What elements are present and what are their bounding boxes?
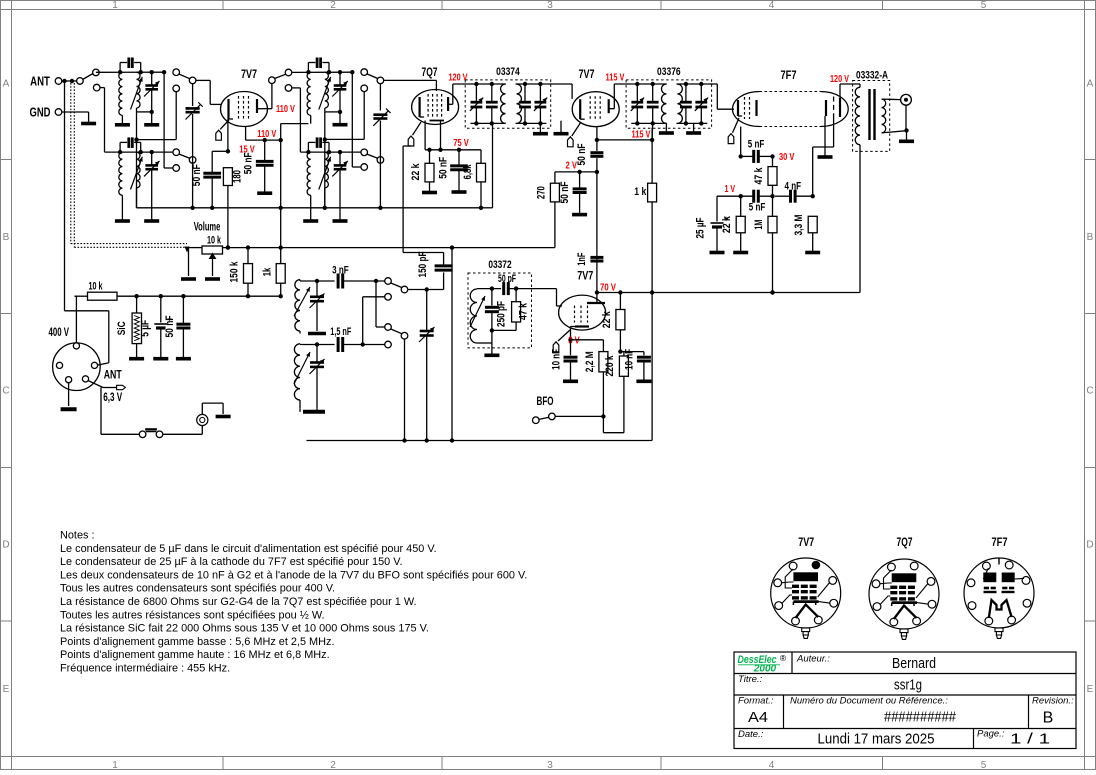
svg-text:Numéro du Document ou Référenc: Numéro du Document ou Référence.: — [790, 696, 948, 707]
svg-text:®: ® — [780, 653, 787, 663]
svg-text:B: B — [1043, 710, 1054, 727]
svg-text:2 V: 2 V — [566, 160, 578, 171]
svg-text:10 nF: 10 nF — [623, 349, 635, 370]
svg-text:ANT: ANT — [104, 370, 122, 382]
svg-text:10 nF: 10 nF — [551, 349, 563, 370]
svg-text:##########: ########## — [884, 709, 957, 726]
svg-text:15 V: 15 V — [239, 145, 255, 156]
svg-text:120 V: 120 V — [830, 74, 849, 85]
svg-text:50 nF: 50 nF — [576, 143, 588, 165]
svg-text:1 V: 1 V — [725, 184, 736, 195]
svg-text:115 V: 115 V — [632, 129, 651, 140]
svg-text:1: 1 — [112, 760, 118, 770]
svg-text:150 pF: 150 pF — [417, 251, 429, 277]
svg-text:7Q7: 7Q7 — [897, 537, 913, 549]
svg-text:4: 4 — [769, 0, 775, 11]
svg-text:3: 3 — [547, 760, 553, 770]
svg-text:7V7: 7V7 — [798, 537, 814, 549]
svg-text:Le condensateur de 25 µF à la: Le condensateur de 25 µF à la cathode du… — [60, 556, 403, 568]
svg-text:150 k: 150 k — [228, 261, 240, 283]
svg-text:70 V: 70 V — [600, 282, 616, 293]
svg-text:C: C — [2, 386, 9, 397]
svg-text:3: 3 — [547, 0, 553, 11]
svg-text:Tous les autres condensateurs: Tous les autres condensateurs sont spéci… — [60, 583, 335, 595]
svg-text:1M: 1M — [753, 220, 765, 230]
svg-text:B: B — [1087, 232, 1094, 243]
svg-text:2,2 M: 2,2 M — [584, 351, 596, 372]
svg-text:1nF: 1nF — [576, 253, 588, 266]
svg-text:Revision.:: Revision.: — [1032, 696, 1074, 707]
svg-text:E: E — [3, 684, 10, 695]
svg-text:7V7: 7V7 — [579, 69, 595, 81]
svg-text:Page.:: Page.: — [977, 729, 1005, 740]
svg-text:180: 180 — [232, 170, 244, 183]
svg-text:Titre.:: Titre.: — [738, 674, 763, 685]
svg-text:Le condensateur de 5 µF dans l: Le condensateur de 5 µF dans le circuit … — [60, 543, 437, 555]
svg-text:Points d'alignement gamme haut: Points d'alignement gamme haute : 16 MHz… — [60, 649, 330, 661]
svg-text:110 V: 110 V — [276, 104, 295, 115]
svg-text:Volume: Volume — [194, 222, 221, 234]
svg-text:SiC: SiC — [116, 321, 128, 335]
svg-text:50 nF: 50 nF — [559, 181, 571, 203]
svg-text:Lundi 17 mars 2025: Lundi 17 mars 2025 — [818, 731, 935, 748]
svg-text:3,3 M: 3,3 M — [793, 215, 805, 236]
svg-text:Notes :: Notes : — [60, 530, 95, 542]
svg-text:Date.:: Date.: — [738, 729, 764, 740]
svg-text:1 / 1: 1 / 1 — [1010, 731, 1050, 748]
svg-text:5: 5 — [981, 0, 987, 11]
svg-text:50 nF: 50 nF — [438, 157, 450, 179]
svg-text:D: D — [2, 540, 9, 551]
svg-text:1: 1 — [112, 0, 118, 11]
svg-text:03332-A: 03332-A — [856, 70, 888, 82]
svg-text:6,3 V: 6,3 V — [103, 392, 122, 404]
svg-text:ANT: ANT — [30, 74, 50, 89]
svg-text:270: 270 — [535, 186, 547, 199]
svg-text:A4: A4 — [748, 709, 768, 726]
svg-text:ssr1g: ssr1g — [894, 677, 922, 694]
svg-text:22 k: 22 k — [601, 311, 613, 329]
svg-text:250 pF: 250 pF — [496, 301, 508, 327]
svg-text:47 k: 47 k — [518, 302, 530, 320]
svg-text:22 k: 22 k — [721, 215, 733, 233]
svg-text:03376: 03376 — [657, 66, 681, 78]
svg-text:5 nF: 5 nF — [748, 138, 765, 150]
svg-text:Auteur.:: Auteur.: — [796, 654, 830, 665]
svg-text:1,5 nF: 1,5 nF — [330, 326, 351, 338]
svg-text:03374: 03374 — [496, 66, 520, 78]
svg-text:1k: 1k — [261, 267, 273, 276]
svg-text:5 µF: 5 µF — [139, 320, 151, 337]
svg-text:110 V: 110 V — [257, 129, 276, 140]
svg-text:6,8k: 6,8k — [462, 164, 474, 180]
svg-text:03372: 03372 — [488, 259, 511, 271]
svg-text:50 nF: 50 nF — [191, 164, 203, 186]
svg-text:Fréquence intermédiaire : 455: Fréquence intermédiaire : 455 kHz. — [60, 663, 230, 675]
svg-text:Les deux condensateurs de 10 n: Les deux condensateurs de 10 nF à G2 et … — [60, 569, 527, 581]
svg-text:B: B — [3, 232, 10, 243]
svg-text:75 V: 75 V — [453, 138, 469, 149]
svg-text:400 V: 400 V — [49, 327, 70, 339]
svg-text:47 k: 47 k — [753, 167, 765, 185]
svg-text:10 k: 10 k — [207, 235, 222, 247]
svg-text:22 k: 22 k — [410, 163, 422, 181]
svg-text:BFO: BFO — [537, 396, 554, 408]
svg-text:5 nF: 5 nF — [749, 201, 766, 213]
svg-text:5: 5 — [981, 760, 987, 770]
svg-text:7F7: 7F7 — [781, 70, 797, 82]
svg-text:220 k: 220 k — [604, 355, 616, 377]
svg-text:4 nF: 4 nF — [785, 181, 802, 193]
svg-text:Toutes les autres résistances: Toutes les autres résistances sont spéci… — [60, 609, 325, 621]
svg-text:30 V: 30 V — [779, 152, 795, 163]
svg-text:E: E — [1087, 684, 1094, 695]
svg-text:Points d'alignement gamme bass: Points d'alignement gamme basse : 5,6 MH… — [60, 636, 334, 648]
svg-text:115 V: 115 V — [606, 73, 625, 84]
svg-text:7V7: 7V7 — [577, 270, 593, 282]
svg-text:2: 2 — [330, 0, 336, 11]
svg-text:50 nF: 50 nF — [164, 315, 176, 337]
svg-text:C: C — [1086, 386, 1093, 397]
svg-text:7Q7: 7Q7 — [422, 67, 438, 79]
svg-text:La résistance SiC fait 22 000: La résistance SiC fait 22 000 Ohms sous … — [60, 623, 429, 635]
svg-text:A: A — [1087, 79, 1094, 90]
svg-text:7V7: 7V7 — [241, 69, 257, 81]
svg-text:GND: GND — [30, 105, 51, 120]
svg-text:D: D — [1086, 540, 1093, 551]
svg-text:Bernard: Bernard — [892, 655, 936, 672]
svg-text:A: A — [3, 79, 10, 90]
svg-text:7F7: 7F7 — [992, 537, 1008, 549]
svg-text:2: 2 — [330, 760, 336, 770]
svg-text:La résistance de 6800 Ohms sur: La résistance de 6800 Ohms sur G2-G4 de … — [60, 596, 417, 608]
svg-text:25 µF: 25 µF — [694, 217, 706, 238]
svg-text:3 nF: 3 nF — [332, 265, 349, 277]
svg-text:4: 4 — [769, 760, 775, 770]
svg-text:10 k: 10 k — [89, 280, 104, 292]
svg-text:Format.:: Format.: — [738, 696, 774, 707]
svg-text:1 k: 1 k — [634, 186, 647, 198]
